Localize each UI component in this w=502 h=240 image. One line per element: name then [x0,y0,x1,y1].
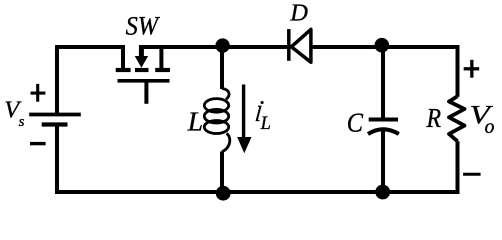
svg-text:SW: SW [126,11,161,41]
svg-text:L: L [187,105,203,136]
label iL [253,93,264,129]
svg-text:D: D [289,0,308,26]
wire: inductor top lead from node A [220,47,224,89]
capacitor top plate [369,118,398,122]
iL arrow shaft [242,85,245,140]
wire: capacitor top lead from node B [381,47,385,118]
wire: diode cathode to top-right corner and down to resistor [311,47,458,97]
label Vo [470,101,494,130]
node B bottom junction [375,185,390,200]
MOSFET gate lead [144,81,148,104]
label C [347,107,364,137]
output minus sign [463,173,481,176]
wire: MOSFET drain stub [121,45,125,68]
inductor loop 1 [204,99,228,113]
iL dot of i [261,101,264,104]
inductor bottom hook [222,134,230,152]
inductor loop 3 [204,121,228,134]
MOSFET body arrow head [135,56,148,68]
diode D [289,29,311,62]
wire: left vertical bottom + bottom wire + right vertical bottom [57,125,458,193]
wire: left vertical top + top wire to switch drain [57,47,125,115]
diode triangle [291,29,311,62]
output plus sign [464,60,480,78]
battery minus sign [30,142,46,145]
svg-text:o: o [485,117,495,138]
MOSFET drain contact bar [116,68,131,72]
wire: MOSFET source stub [159,45,163,68]
svg-text:s: s [19,114,25,130]
capacitor C [368,120,399,135]
MOSFET body arrow shaft [139,45,144,58]
wire: inductor bottom lead to bottom node [220,152,224,193]
current arrow iL [237,85,251,154]
battery Vs [29,115,81,125]
MOSFET gate bar [118,79,170,83]
wire: top wire from switch to diode (through node A) [139,45,288,49]
label SW [126,11,161,41]
transistor SW (MOSFET) [116,45,170,104]
label R [426,103,442,134]
svg-text:R: R [426,103,442,134]
node A top junction [215,38,229,52]
resistor R [449,96,465,141]
battery positive plate [29,113,81,117]
diode cathode bar [287,29,291,61]
node B top junction [375,38,390,53]
iL arrow head [237,137,251,153]
node A bottom junction [216,186,231,201]
capacitor bottom plate arc [368,129,399,134]
battery negative plate [42,122,68,126]
inductor top hook [222,89,229,100]
MOSFET source contact bar [155,68,170,72]
resistor zigzag [449,96,465,141]
wire: capacitor bottom lead to bottom node [381,131,385,193]
battery plus sign [31,84,46,102]
inductor L [204,89,230,152]
MOSFET body contact bar [135,68,149,72]
inductor loop 2 [204,109,228,123]
svg-text:L: L [260,114,271,134]
svg-text:C: C [347,107,364,137]
